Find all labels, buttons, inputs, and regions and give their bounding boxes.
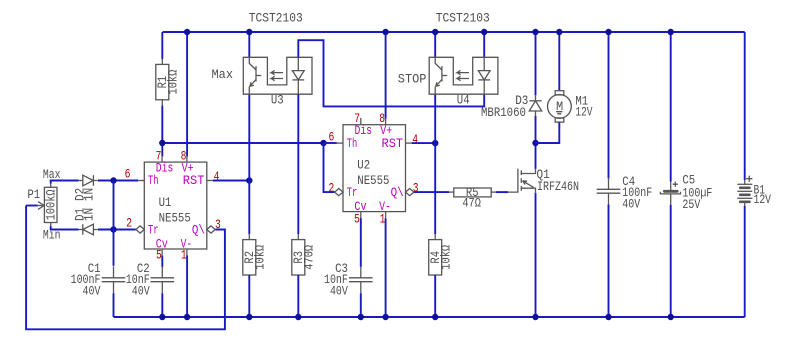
junction bottom rail / R4 <box>432 314 438 320</box>
wire: U2 pin 5 to C3 <box>360 218 362 267</box>
capacitor C5 100µF 25V polarized <box>670 182 672 191</box>
svg-text:4: 4 <box>412 132 418 147</box>
junction bottom rail / Q1 source <box>532 314 538 320</box>
resistor R1 10kΩ <box>161 59 163 65</box>
wire: D2 to U1 pin 6 <box>98 180 138 182</box>
U3 LED <box>297 57 299 70</box>
svg-text:NE555: NE555 <box>159 210 191 225</box>
svg-text:Max: Max <box>212 67 234 82</box>
svg-text:6: 6 <box>125 167 131 182</box>
svg-text:8: 8 <box>379 111 385 126</box>
wire: B1 - to bottom rail <box>744 206 746 317</box>
U1 pin 8 stub <box>186 155 188 162</box>
svg-text:P1: P1 <box>27 187 40 202</box>
U2 pin 6 stub <box>337 142 343 144</box>
diode D1 1N <box>79 229 83 231</box>
svg-text:1N: 1N <box>82 208 97 221</box>
wire: rail to M1 <box>558 32 560 91</box>
svg-text:7: 7 <box>156 149 162 164</box>
svg-text:U1: U1 <box>159 195 172 210</box>
wire: 0V bottom rail <box>114 316 745 318</box>
svg-text:MBR1060: MBR1060 <box>481 105 526 120</box>
wire: R3 to bottom rail <box>297 275 299 317</box>
C4 top lead <box>608 178 610 190</box>
wire: R1 to node A <box>161 106 163 143</box>
resistor R4 10kΩ <box>434 234 436 240</box>
U1 pin 5 stub <box>161 249 163 256</box>
svg-text:TCST2103: TCST2103 <box>249 11 303 26</box>
wire: R5 to Q1 gate <box>496 191 508 193</box>
svg-text:1N: 1N <box>82 188 97 201</box>
svg-text:47Ω: 47Ω <box>462 195 481 210</box>
wire: rail to U2 pin 8 V+ <box>385 32 387 119</box>
junction bottom rail / U1 V- <box>184 314 190 320</box>
wire: rail to B1 + <box>744 32 746 180</box>
wire: node A down to U2 pin 2 <box>324 143 335 192</box>
junction U1 RST / U3 emitter / R2 <box>246 177 252 183</box>
U4 LED <box>483 57 485 70</box>
wire: P1 min to D1 <box>51 226 79 229</box>
P1 wiper arrow <box>38 205 43 207</box>
transistor Q1 IRFZ46N MOSFET <box>508 169 518 192</box>
wire: C1 to bottom rail corner <box>113 293 115 317</box>
svg-text:3: 3 <box>215 217 221 232</box>
wire: rail to U1 pin 8 V+ <box>186 32 188 157</box>
wire: U2 pin 4 RST to R4 node <box>412 142 436 144</box>
wire: M1 to D3/Q1 node <box>536 122 560 143</box>
wire: Q1 source to bottom rail <box>535 193 537 317</box>
U1 pin 7 stub <box>161 155 163 162</box>
wire: rail to C4 <box>608 32 610 178</box>
junction bottom rail / R3 <box>295 314 301 320</box>
U2 pin 2 diamond <box>335 189 343 196</box>
svg-text:5: 5 <box>156 248 162 263</box>
U2 pin 5 stub <box>360 212 362 219</box>
svg-text:10kΩ: 10kΩ <box>253 245 268 270</box>
U1 pin 4 stub <box>207 180 213 182</box>
svg-text:10kΩ: 10kΩ <box>439 245 454 270</box>
junction D3 / motor / Q1 drain <box>532 140 538 146</box>
wire: node A to U2 pin 6 <box>324 142 337 144</box>
junction node A at R1 <box>159 140 165 146</box>
optocoupler U4 TCST2103 outline <box>429 57 498 94</box>
U1 pin 1 stub <box>186 249 188 256</box>
wire: U4 emitter down to RST node <box>434 94 436 143</box>
svg-text:100kΩ: 100kΩ <box>43 189 58 220</box>
junction top rail / C5 <box>668 29 674 35</box>
plus sign (C5) <box>673 182 678 187</box>
capacitor C2 10nF 40V <box>161 266 163 278</box>
svg-text:U2: U2 <box>357 158 370 173</box>
junction top rail / M1 <box>556 29 562 35</box>
junction top rail / U2 V+ <box>382 29 388 35</box>
junction bottom rail / C2 <box>159 314 165 320</box>
wire: U3 LED cathode to R3 <box>297 94 299 234</box>
U3 light arrows <box>271 70 283 74</box>
wire: rail to U3 collector <box>248 32 250 57</box>
wire: rail to U4 LED anode <box>483 32 485 57</box>
wire: C5 to bottom rail <box>670 205 672 317</box>
wire: C4 to bottom rail <box>608 205 610 318</box>
svg-text:6: 6 <box>329 130 335 145</box>
junction top rail / C4 <box>605 29 611 35</box>
wire: rail to U4 collector <box>434 32 436 57</box>
svg-text:Th: Th <box>347 136 358 151</box>
svg-text:1: 1 <box>181 248 187 263</box>
svg-text:U4: U4 <box>457 93 470 108</box>
svg-text:STOP: STOP <box>398 72 427 87</box>
wire: P1 wiper <box>26 205 38 207</box>
wire: Q1 drain to motor node <box>535 143 537 169</box>
U2 pin 8 stub <box>385 118 387 125</box>
junction D2 / C1 node <box>110 177 116 183</box>
wire: rail to C5 <box>670 32 672 182</box>
svg-text:Q\: Q\ <box>391 185 404 200</box>
svg-text:25V: 25V <box>682 197 700 212</box>
U2 pin 3 diamond <box>406 189 414 196</box>
junction bottom rail / U2 V- <box>382 314 388 320</box>
wire: R4 to bottom rail <box>434 275 436 317</box>
wire: U3 LED anode to U4 LED cathode <box>298 40 484 106</box>
svg-text:10kΩ: 10kΩ <box>166 70 181 95</box>
svg-text:2: 2 <box>329 181 335 196</box>
U4 phototransistor <box>435 57 442 70</box>
wire: node A horizontal R1/U1.7 to U2 net <box>162 142 323 144</box>
svg-text:Th: Th <box>148 173 159 188</box>
svg-text:NE555: NE555 <box>357 173 389 188</box>
wire: U2 pin 3 to R5 <box>414 191 449 193</box>
junction top rail / U4 LED anode <box>481 29 487 35</box>
junction top rail / U4 collector <box>432 29 438 35</box>
wire: +12V top rail <box>163 31 745 33</box>
svg-text:12V: 12V <box>575 104 592 119</box>
junction bottom rail / C3 <box>358 314 364 320</box>
IC U2 NE555 body <box>343 125 406 212</box>
junction top rail / U3 collector <box>246 29 252 35</box>
C4 bottom lead <box>608 193 610 205</box>
resistor R3 470Ω <box>297 234 299 240</box>
wire: C2 to bottom rail <box>161 293 163 317</box>
wire: D1 to U1 pin 2 <box>98 229 136 231</box>
svg-text:1: 1 <box>380 211 386 226</box>
wire: P1 max to D2 <box>51 181 79 184</box>
battery B1 12V <box>737 183 752 185</box>
svg-text:40V: 40V <box>83 284 101 299</box>
svg-text:3: 3 <box>413 181 419 196</box>
wire: U3 emitter down to RST node <box>248 94 250 180</box>
optocoupler U3 TCST2103 outline <box>243 57 312 94</box>
U2 pin 7 stub <box>360 118 362 125</box>
svg-text:40V: 40V <box>330 284 348 299</box>
capacitor C3 10nF 40V <box>360 266 362 278</box>
wire: U1 pin 1 V- to bottom rail <box>186 256 188 318</box>
wire: RST node to R4 <box>434 143 436 234</box>
wire: R2 to bottom rail <box>248 275 250 317</box>
junction top rail / D3 <box>532 29 538 35</box>
junction bottom rail / R2 <box>246 314 252 320</box>
wire: feedback loop U1 pin3 to P1 wiper <box>26 206 225 330</box>
svg-text:TCST2103: TCST2103 <box>436 11 490 26</box>
svg-text:470Ω: 470Ω <box>302 245 317 270</box>
B1 top lead <box>744 180 746 185</box>
wire: U1 pin 4 RST to R2 node <box>213 180 249 182</box>
junction top rail / U1 V+ <box>184 29 190 35</box>
wire: D2 node down through D1 node to C1 <box>113 181 115 266</box>
wire: U2 pin 1 V- to bottom rail <box>385 218 387 317</box>
U2 pin 1 stub <box>385 212 387 219</box>
diode D2 1N <box>79 180 83 182</box>
wire: D3 anode to motor node <box>535 116 537 143</box>
resistor R5 47Ω <box>449 191 454 193</box>
svg-text:7: 7 <box>354 111 360 126</box>
junction bottom rail / C5 <box>668 314 674 320</box>
U3 phototransistor <box>249 57 256 70</box>
plus sign (B1) <box>746 176 752 182</box>
junction D1 / C1 node <box>110 226 116 232</box>
U1 pin 3 diamond <box>207 226 215 233</box>
svg-text:5: 5 <box>354 211 360 226</box>
motor M1 12V <box>555 91 564 95</box>
junction bottom rail / C4 <box>605 314 611 320</box>
wire: C3 to bottom rail <box>360 293 362 317</box>
wire: RST node to R2 <box>248 181 250 235</box>
svg-text:40V: 40V <box>132 284 150 299</box>
wire: rail to D3 cathode <box>535 32 537 95</box>
capacitor C1 100nF 40V <box>113 266 115 278</box>
svg-text:RST: RST <box>382 136 404 151</box>
svg-text:IRFZ46N: IRFZ46N <box>537 179 579 194</box>
svg-text:40V: 40V <box>622 197 640 212</box>
potentiometer P1 100kΩ <box>44 187 57 222</box>
junction U2 RST / U4 emitter / R4 <box>432 140 438 146</box>
junction node A at U2 <box>320 140 326 146</box>
svg-text:U3: U3 <box>271 93 284 108</box>
svg-text:12V: 12V <box>754 192 772 207</box>
IC U1 NE555 body <box>144 162 207 249</box>
U1 pin 2 diamond <box>136 226 144 233</box>
U1 pin 6 stub <box>138 180 144 182</box>
svg-text:Q\: Q\ <box>192 223 205 238</box>
svg-text:8: 8 <box>181 149 187 164</box>
svg-text:2: 2 <box>126 216 132 231</box>
B1 bottom lead <box>744 202 746 207</box>
U4 light arrows <box>457 70 469 74</box>
svg-text:4: 4 <box>214 169 220 184</box>
wire: node A down to U1 pin7 <box>161 143 163 157</box>
wire: rail to R1 <box>161 32 163 59</box>
U2 pin 4 stub <box>406 142 412 144</box>
svg-text:RST: RST <box>183 173 205 188</box>
wire: U1 pin 5 to C2 <box>161 256 163 267</box>
diode D3 MBR1060 <box>535 95 537 101</box>
capacitor C4 100nF 40V <box>597 188 621 190</box>
resistor R2 10kΩ <box>248 234 250 240</box>
